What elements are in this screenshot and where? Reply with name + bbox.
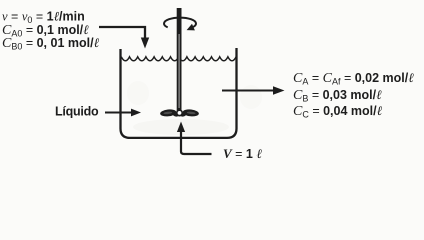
tank vessel walls xyxy=(121,48,237,138)
impeller blade highlights xyxy=(163,111,195,114)
svg-text:CB = 0,03 mol/ℓ: CB = 0,03 mol/ℓ xyxy=(293,87,382,104)
svg-text:CC = 0,04 mol/ℓ: CC = 0,04 mol/ℓ xyxy=(293,103,383,120)
inlet feed arrow (top) xyxy=(99,27,145,40)
stirrer shaft xyxy=(177,8,182,112)
outlet arrow (right) xyxy=(222,90,275,92)
svg-text:V = 1 ℓ: V = 1 ℓ xyxy=(223,146,262,161)
scan smudges (background tone) xyxy=(127,81,262,135)
svg-text:Líquido: Líquido xyxy=(55,105,99,119)
volume pointer elbow xyxy=(181,130,212,154)
impeller blades xyxy=(160,109,199,118)
svg-text:CA = CAf = 0,02 mol/ℓ: CA = CAf = 0,02 mol/ℓ xyxy=(293,70,414,87)
impeller hub xyxy=(176,109,183,116)
liquido arrow xyxy=(105,112,133,114)
stirrer rotation arrow xyxy=(164,18,196,28)
liquid surface wavy line xyxy=(121,57,236,61)
